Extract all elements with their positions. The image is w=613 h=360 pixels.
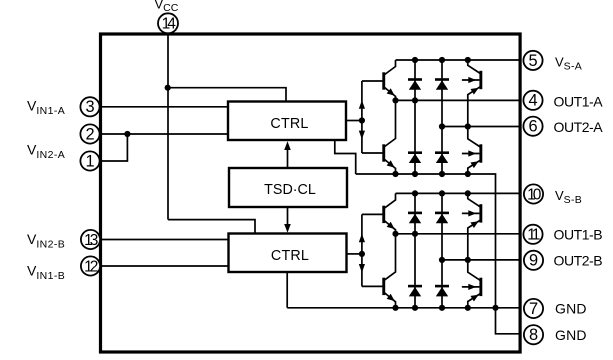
svg-text:CTRL: CTRL [271, 248, 309, 264]
junction dot bus junction A [359, 117, 365, 123]
wire diode column 2 B [441, 193, 443, 307]
transistor Q3 (right upper, A bridge) [462, 60, 482, 127]
diode D7 GND to OUT1-B (anode bottom, cathode top) [408, 285, 422, 297]
block CTRL A [228, 102, 346, 141]
pin circle 12 (VIN1-B) [81, 256, 100, 275]
diode D8 GND to OUT2-B (anode bottom, cathode top) [435, 285, 449, 297]
svg-text:6: 6 [528, 118, 537, 136]
wire base drive bus B [361, 214, 363, 286]
pin circle 6 (OUT2-A) [523, 117, 542, 136]
transistor Q8 (right lower, B bridge) [462, 260, 482, 308]
wire base wire Q5 B [362, 213, 383, 215]
junction dot GND rail B x442 [439, 305, 445, 311]
junction dot VS-A/Q3 [465, 57, 471, 63]
transistor Q4 (right lower, A bridge) [462, 127, 482, 175]
block CTRL B [229, 234, 347, 273]
pin circle 4 (OUT1-A) [523, 91, 542, 110]
junction dot GND rail A x395.5 [392, 171, 398, 177]
transistor Q7 (right upper, B bridge) [462, 193, 482, 260]
wire TSD-CL to CTRL A link [287, 150, 289, 169]
wire OUT2-A node wire [442, 126, 521, 128]
wire diode column 1 B [414, 193, 416, 307]
pin circle 5 (VS-A) [523, 51, 542, 70]
svg-text:2: 2 [85, 125, 94, 143]
wire base drive bus A [361, 81, 363, 153]
signal arrow down on bus A [359, 131, 365, 140]
junction dot OUT2-A/D2 [439, 123, 445, 129]
svg-text:GND: GND [555, 327, 587, 343]
svg-text:OUT1-B: OUT1-B [554, 227, 603, 243]
wire OUT1-A node wire [396, 99, 522, 101]
junction dot GND rail B x495.5 [492, 305, 498, 311]
junction dot VS-B/D5 [412, 190, 418, 196]
pin circle 11 (OUT1-B) [523, 225, 542, 244]
transistor Q2 (left lower, A bridge) [382, 100, 395, 174]
transistor Q6 (left lower, B bridge) [382, 234, 395, 308]
svg-text:OUT1-A: OUT1-A [554, 93, 604, 109]
wire VS rail A [396, 59, 522, 61]
wire OUT1-B node wire [396, 233, 522, 235]
signal arrow up on bus B [359, 234, 365, 243]
wire VCC feed to CTRL B [168, 220, 255, 234]
pin circle 9 (OUT2-B) [524, 251, 543, 270]
junction dot GND rail B x467.8 [465, 305, 471, 311]
transistor Q1 (left upper, A bridge) [382, 60, 395, 100]
wire CTRL B ground return [286, 272, 288, 308]
pin circle 14 (VCC) [158, 13, 178, 33]
junction dot GND rail A x442 [439, 171, 445, 177]
junction dot VCC branch [165, 85, 171, 91]
wire bridge B GND rail to pin 7 [287, 307, 521, 309]
svg-text:8: 8 [529, 326, 538, 344]
junction dot OUT1-B node [392, 231, 398, 237]
wire TSD-CL to CTRL B link [287, 207, 289, 225]
wire CTRL A ground return [335, 140, 356, 175]
wire VS rail B [396, 192, 522, 194]
junction dot VS-A/D2 [439, 57, 445, 63]
wire diode column 1 A [414, 60, 416, 174]
junction dot VS-B/D6 [439, 190, 445, 196]
pin circle 2 (VIN2-A) [80, 124, 99, 143]
wire base wire Q2 A [362, 152, 383, 154]
diode D3 GND to OUT1-A (anode bottom, cathode top) [408, 151, 422, 163]
junction dot OUT2-B node [465, 257, 471, 263]
svg-text:5: 5 [528, 52, 537, 70]
wire pin 2 to CTRL A input [100, 133, 229, 135]
svg-text:OUT2-A: OUT2-A [554, 119, 604, 135]
svg-text:9: 9 [529, 252, 538, 270]
svg-text:3: 3 [85, 98, 94, 116]
svg-text:1: 1 [85, 152, 94, 170]
wire diode column 2 A [441, 60, 443, 174]
wire GND branch to pin 8 [496, 308, 522, 334]
IC outline box [101, 34, 521, 352]
junction dot pins 1-2 tie [124, 131, 130, 137]
junction dot GND rail B x415 [412, 305, 418, 311]
wire VCC feed to CTRL A [168, 88, 286, 102]
wire pin 1 tie to pin 2 net [100, 134, 128, 161]
pin circle 8 (GND) [524, 325, 543, 344]
svg-text:OUT2-B: OUT2-B [554, 253, 603, 269]
svg-text:CTRL: CTRL [270, 116, 308, 132]
pin circle 7 (GND) [524, 299, 543, 318]
svg-text:TSD·CL: TSD·CL [264, 182, 316, 198]
diode D2 OUT2-A to VS-A (anode bottom, cathode top) [435, 78, 449, 90]
diode D4 GND to OUT2-A (anode bottom, cathode top) [435, 151, 449, 163]
wire OUT2-B node wire [442, 259, 521, 261]
junction dot OUT1-B/D5 [412, 231, 418, 237]
svg-text:4: 4 [528, 92, 537, 110]
junction dot OUT1-A/D1 [412, 97, 418, 103]
wire base wire Q1 A [362, 80, 383, 82]
svg-text:7: 7 [529, 300, 538, 318]
junction dot OUT1-A node [392, 97, 398, 103]
arrow up into CTRL A [284, 141, 291, 150]
wire pin 3 to CTRL A input [100, 106, 229, 108]
block TSD-CL [229, 168, 347, 207]
pin circle 13 (VIN2-B) [81, 230, 100, 249]
junction dot GND rail A x415 [412, 171, 418, 177]
diode D6 OUT2-B to VS-B (anode bottom, cathode top) [435, 212, 449, 224]
signal arrow down on bus B [359, 264, 365, 273]
svg-text:GND: GND [555, 301, 587, 317]
arrow down into CTRL B [284, 224, 291, 233]
pin circle 1 (VIN2-A tied) [80, 151, 99, 170]
wire base wire Q6 B [362, 285, 383, 287]
wire pin 12 to CTRL B input [100, 265, 229, 267]
wire CTRL output stub A [346, 120, 362, 122]
wire bridge A GND rail and drop to GND net [356, 174, 496, 308]
junction dot OUT2-B/D6 [439, 257, 445, 263]
wire VCC vertical from pin 14 [167, 33, 169, 220]
junction dot GND rail B x395.5 [392, 305, 398, 311]
wire pin 13 to CTRL B input [100, 239, 229, 241]
transistor Q5 (left upper, B bridge) [382, 193, 395, 233]
junction dot bus junction B [359, 251, 365, 257]
pin circle 10 (VS-B) [524, 184, 543, 203]
diode D5 OUT1-B to VS-B (anode bottom, cathode top) [408, 212, 422, 224]
junction dot OUT2-A node [465, 123, 471, 129]
wire CTRL output stub B [346, 253, 362, 255]
junction dot VS-A/D1 [412, 57, 418, 63]
junction dot VS-B/Q7 [465, 190, 471, 196]
diode D1 OUT1-A to VS-A (anode bottom, cathode top) [408, 78, 422, 90]
signal arrow up on bus A [359, 100, 365, 109]
junction dot GND rail A x467.8 [465, 171, 471, 177]
pin circle 3 (VIN1-A) [80, 97, 99, 116]
